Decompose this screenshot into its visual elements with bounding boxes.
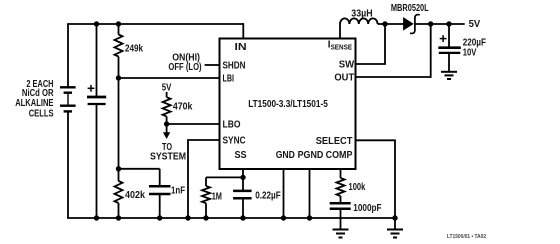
junction rail at 0.22uF xyxy=(240,215,245,220)
wire COMP pin down xyxy=(340,169,342,178)
junction top rail at C_in xyxy=(94,21,99,26)
wire LBO pin xyxy=(167,123,220,125)
svg-text:LBI: LBI xyxy=(223,74,235,85)
wire 5V stub to 470k xyxy=(166,92,168,97)
arrow to system head xyxy=(163,132,170,139)
wire IN pin drop xyxy=(242,23,244,39)
wire ISENSE pin up xyxy=(339,24,341,39)
wire LBI pin xyxy=(119,77,221,79)
junction rail at SYNC xyxy=(185,215,190,220)
label battery cells xyxy=(15,79,54,119)
plus sign of C1 xyxy=(440,35,447,42)
wire SELECT pin xyxy=(355,140,395,218)
svg-text:IN: IN xyxy=(235,42,247,53)
wire battery positive to top rail xyxy=(67,24,69,88)
wire 402k to ground rail xyxy=(118,203,120,218)
capacitor C4 1000pF plates xyxy=(330,202,351,205)
resistor R1 249k branch wire xyxy=(118,24,120,35)
wire select ground stem xyxy=(394,218,396,230)
arrow to system stem xyxy=(166,124,168,133)
capacitor C2 1nF plates xyxy=(149,185,171,188)
svg-text:SHDN: SHDN xyxy=(223,61,246,72)
wire between battery cells xyxy=(67,93,69,106)
wire OUT pin xyxy=(355,24,431,77)
resistor R1 249k xyxy=(115,35,123,57)
label TO SYSTEM xyxy=(150,142,186,163)
svg-text:33µH: 33µH xyxy=(351,8,372,19)
svg-text:402k: 402k xyxy=(125,190,145,201)
svg-text:SYNC: SYNC xyxy=(223,136,246,147)
capacitor C2 1nF bottom lead xyxy=(159,194,161,218)
diode D1 MBR0520L triangle xyxy=(404,18,413,29)
wire SW pin xyxy=(355,24,385,64)
junction rail at SELECT ground xyxy=(392,215,397,220)
svg-text:1M: 1M xyxy=(212,192,222,203)
svg-text:0.22µF: 0.22µF xyxy=(255,190,281,201)
battery B1 2-cell xyxy=(60,87,76,111)
svg-text:COMP: COMP xyxy=(326,150,353,161)
wire SS node to 1M xyxy=(206,176,243,178)
ground symbol under 220uF xyxy=(441,72,457,79)
capacitor C3 0.22uF bottom lead xyxy=(242,198,244,218)
junction rail at 1M xyxy=(203,215,208,220)
wire 402k node to 1nF xyxy=(119,168,160,170)
junction LBO node xyxy=(164,121,169,126)
inductor L1 33uH xyxy=(340,18,378,24)
junction 220uF node xyxy=(446,21,451,26)
wire PGND pin down xyxy=(309,169,311,218)
wire 402k node to resistor xyxy=(118,169,120,181)
svg-text:470k: 470k xyxy=(173,101,193,112)
svg-text:SELECT: SELECT xyxy=(316,136,353,147)
plus sign of C_in xyxy=(88,85,95,92)
capacitor C2 1nF top lead xyxy=(159,169,161,187)
svg-text:MBR0520L: MBR0520L xyxy=(391,3,429,14)
op IC U1 LT1500 box xyxy=(220,39,356,170)
svg-text:1000pF: 1000pF xyxy=(353,203,381,214)
junction diode OUT node xyxy=(428,21,433,26)
svg-text:OUT: OUT xyxy=(334,73,354,84)
wire 100k to 1000pF xyxy=(340,196,342,203)
wire inductor to SW node xyxy=(378,23,404,25)
resistor R5 100k xyxy=(337,178,345,196)
wire 249k to LBI node xyxy=(118,57,120,79)
wire battery negative to bottom rail xyxy=(67,111,69,218)
svg-text:5V: 5V xyxy=(469,19,481,30)
svg-text:LBO: LBO xyxy=(223,120,241,131)
junction 402k top node xyxy=(116,166,121,171)
wire 220uF to ground xyxy=(448,53,450,72)
wire GND pin down xyxy=(283,169,285,218)
svg-text:CELLS: CELLS xyxy=(29,108,54,119)
wire 1000pF to ground symbol xyxy=(340,209,342,230)
svg-text:PGND: PGND xyxy=(298,150,324,161)
wire diode to 5V output xyxy=(415,23,465,25)
junction top rail at 249k xyxy=(116,21,121,26)
resistor R2 402k xyxy=(115,181,123,203)
svg-text:SW: SW xyxy=(339,60,355,71)
label ON(HI) OFF(LO) xyxy=(168,52,201,73)
diode D1 schottky cathode xyxy=(410,15,420,34)
wire 1M top lead xyxy=(205,177,207,186)
svg-text:249k: 249k xyxy=(125,43,143,54)
svg-text:OFF (LO): OFF (LO) xyxy=(168,62,201,73)
wire 1M to ground rail xyxy=(205,203,207,218)
wire 470k to LBO node xyxy=(166,116,168,124)
ground symbol under SELECT xyxy=(387,230,403,238)
junction rail at 402k xyxy=(116,215,121,220)
capacitor C1 220uF top lead xyxy=(448,24,450,48)
svg-text:5V: 5V xyxy=(162,83,172,94)
resistor R3 470k xyxy=(163,97,171,116)
svg-text:LT1500/01 • TA02: LT1500/01 • TA02 xyxy=(447,234,486,240)
junction LBI node xyxy=(116,75,121,80)
wire SYNC pin xyxy=(188,140,220,218)
wire LBI node down to 402k node xyxy=(118,78,120,169)
wire SS pin down xyxy=(242,169,244,191)
resistor R4 1M xyxy=(202,186,210,203)
junction rail at 1nF xyxy=(157,215,162,220)
wire SHDN pin stub xyxy=(205,64,220,66)
wire bottom ground rail xyxy=(67,217,395,219)
junction SW inductor node xyxy=(382,21,387,26)
junction rail at PGND xyxy=(307,215,312,220)
capacitor C_in polarized xyxy=(96,24,98,97)
svg-text:SYSTEM: SYSTEM xyxy=(150,152,186,163)
svg-text:100k: 100k xyxy=(349,182,366,193)
svg-text:10V: 10V xyxy=(463,47,477,58)
ground symbol under 1000pF xyxy=(333,230,349,238)
wire top rail xyxy=(67,23,243,25)
capacitor C3 0.22uF plates xyxy=(233,190,252,193)
junction rail at C_in bottom xyxy=(94,215,99,220)
svg-text:SS: SS xyxy=(235,150,247,161)
svg-text:GND: GND xyxy=(276,150,295,161)
svg-text:1nF: 1nF xyxy=(171,185,185,196)
capacitor C1 220uF plates xyxy=(438,46,461,49)
svg-text:LT1500-3.3/LT1501-5: LT1500-3.3/LT1501-5 xyxy=(248,99,328,110)
junction rail at GND xyxy=(281,215,286,220)
junction SS node xyxy=(240,175,245,180)
